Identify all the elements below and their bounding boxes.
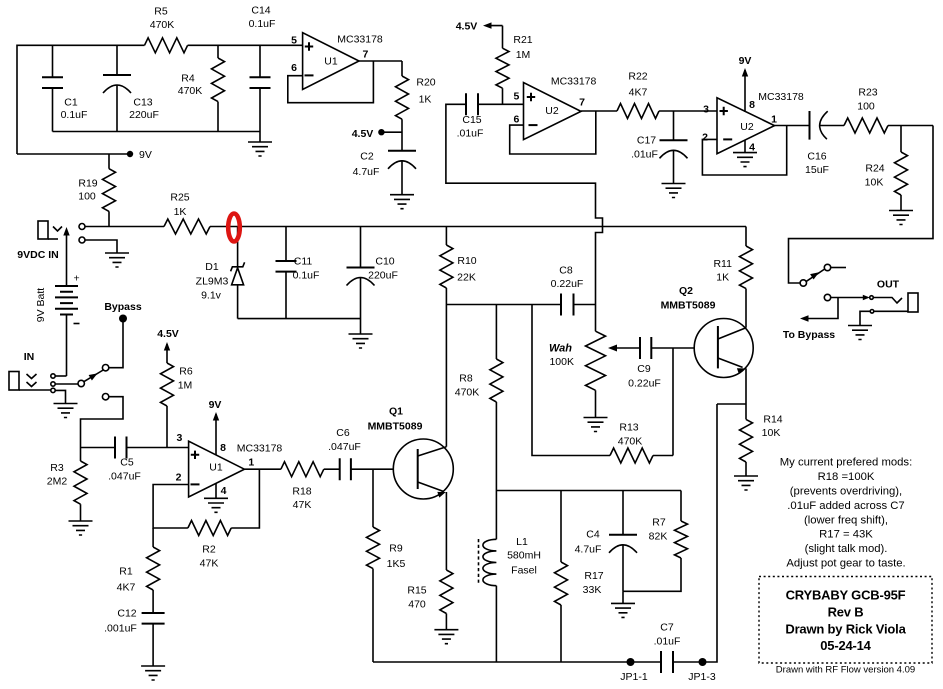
wire top rail left segment and left vertical to 9V node	[17, 45, 145, 154]
svg-text:8: 8	[749, 99, 755, 111]
svg-text:R17 = 43K: R17 = 43K	[819, 529, 873, 541]
svg-text:1K: 1K	[419, 94, 432, 106]
svg-text:100K: 100K	[549, 356, 574, 368]
jack IN body	[9, 372, 19, 391]
resistor R9	[367, 527, 380, 569]
svg-text:(slight talk mod).: (slight talk mod).	[805, 543, 888, 555]
svg-text:C2: C2	[360, 151, 374, 163]
ground under R15	[434, 630, 458, 644]
wire lower throw to R3/C5 input node	[81, 397, 124, 448]
svg-text:1K: 1K	[716, 272, 729, 284]
wire C5 to U1 pin3	[127, 447, 189, 449]
resistor R11	[745, 245, 747, 247]
svg-text:C1: C1	[64, 97, 78, 109]
svg-text:C4: C4	[586, 529, 600, 541]
resistor R20	[396, 76, 409, 119]
svg-text:C16: C16	[807, 151, 826, 163]
svg-text:C7: C7	[660, 622, 674, 634]
svg-text:5: 5	[513, 91, 519, 103]
node IN sleeve contact	[51, 388, 55, 392]
ground under C10	[349, 334, 373, 348]
svg-text:R3: R3	[50, 462, 64, 474]
wire tip contact to jack spring	[873, 298, 902, 304]
svg-text:R18 =100K: R18 =100K	[818, 471, 875, 483]
svg-text:470K: 470K	[150, 19, 175, 31]
svg-text:1: 1	[248, 457, 254, 469]
resistor R6	[161, 363, 174, 406]
svg-text:C13: C13	[133, 97, 152, 109]
svg-text:.01uF: .01uF	[631, 149, 658, 161]
resistor R2	[188, 521, 231, 536]
resistor R10	[445, 227, 447, 246]
ground under IN jack	[54, 404, 78, 418]
svg-text:C17: C17	[637, 135, 656, 147]
svg-text:0.22uF: 0.22uF	[628, 378, 661, 390]
wire IN ring to switch pivot	[55, 383, 78, 385]
svg-text:R19: R19	[78, 178, 97, 190]
svg-text:R14: R14	[763, 414, 782, 426]
ground under R3	[69, 521, 93, 535]
capacitor C16	[809, 111, 811, 140]
svg-text:05-24-14: 05-24-14	[820, 638, 871, 653]
svg-text:U2: U2	[545, 105, 559, 117]
svg-text:5: 5	[291, 35, 297, 47]
capacitor C1	[52, 45, 54, 131]
svg-text:2: 2	[176, 472, 182, 484]
svg-text:6: 6	[513, 114, 519, 126]
svg-text:C12: C12	[117, 608, 136, 620]
svg-text:R4: R4	[181, 73, 195, 85]
ground under C17	[662, 184, 686, 198]
wire C15 left loop down to Wah net	[446, 104, 603, 331]
svg-text:33K: 33K	[583, 584, 602, 596]
svg-text:U2: U2	[740, 121, 754, 133]
switch bypass lower throw	[102, 394, 108, 400]
capacitor C4	[622, 491, 624, 535]
capacitor C11	[285, 227, 287, 319]
wire U1b pin 4 to ground	[215, 483, 217, 498]
ground under OUT jack	[848, 326, 872, 340]
svg-text:(prevents overdriving),: (prevents overdriving),	[790, 486, 902, 498]
svg-text:MMBT5089: MMBT5089	[661, 300, 716, 312]
inductor L1 580mH Fasel	[495, 491, 497, 540]
svg-text:MC33178: MC33178	[337, 34, 383, 46]
svg-text:C11: C11	[294, 256, 313, 268]
node Bypass	[119, 315, 127, 323]
svg-text:580mH: 580mH	[507, 550, 541, 562]
wire D1 bottom rail to C10 ground stem	[238, 318, 361, 320]
ground under C4/R7	[611, 603, 635, 617]
svg-text:1: 1	[771, 114, 777, 126]
wire switch common to OUT jack tip	[824, 294, 830, 300]
resistor R4	[217, 45, 219, 131]
wire main rail R25 to R11 corner	[210, 227, 746, 247]
svg-text:4: 4	[221, 485, 227, 497]
ground under R14	[734, 476, 758, 490]
resistor R3	[80, 448, 82, 462]
svg-text:100: 100	[78, 191, 96, 203]
svg-text:8: 8	[220, 442, 226, 454]
svg-text:R18: R18	[292, 486, 311, 498]
wire jack sleeve line	[874, 310, 908, 312]
svg-text:100: 100	[857, 101, 875, 113]
svg-text:0.1uF: 0.1uF	[293, 270, 320, 282]
wire R18 to C6	[324, 468, 340, 470]
svg-text:JP1-1: JP1-1	[620, 671, 648, 683]
svg-text:Adjust pot gear to taste.: Adjust pot gear to taste.	[786, 558, 905, 570]
svg-text:.01uF added across C7: .01uF added across C7	[787, 500, 904, 512]
op-amp U1 (top section)	[303, 33, 359, 90]
node OUT jack tip contact	[870, 296, 874, 300]
wire R2 to output loop	[231, 469, 259, 528]
resistor R19	[108, 154, 110, 227]
title block CRYBABY GCB-95F	[759, 577, 932, 664]
svg-text:Drawn with RF Flow version 4.0: Drawn with RF Flow version 4.09	[776, 665, 915, 676]
svg-text:C15: C15	[462, 114, 481, 126]
svg-text:R10: R10	[457, 255, 476, 267]
svg-text:(lower freq shift),: (lower freq shift),	[804, 515, 888, 527]
capacitor C8	[561, 294, 574, 316]
wire R13 branch from node rail	[532, 305, 610, 456]
svg-text:9V Batt: 9V Batt	[35, 288, 47, 323]
svg-text:MMBT5089: MMBT5089	[368, 420, 423, 432]
svg-text:+: +	[74, 273, 80, 285]
wire C9 to Q2 base	[651, 347, 718, 349]
node 9VDC tip contact	[79, 224, 85, 230]
wire bottom rail	[373, 661, 661, 663]
zener diode D1 ZL9M3	[237, 227, 239, 267]
svg-text:0.22uF: 0.22uF	[551, 278, 584, 290]
wire ring contact to ground	[85, 240, 117, 253]
jack 9VDC IN body	[38, 221, 48, 239]
svg-text:R23: R23	[858, 87, 877, 99]
svg-text:R5: R5	[154, 6, 168, 18]
ground under 9VDC jack	[105, 253, 129, 267]
svg-text:C6: C6	[336, 427, 350, 439]
capacitor C17	[660, 139, 688, 141]
svg-text:R22: R22	[628, 71, 647, 83]
resistor R21	[496, 48, 509, 88]
svg-text:CRYBABY GCB-95F: CRYBABY GCB-95F	[786, 588, 906, 603]
svg-text:R25: R25	[170, 192, 189, 204]
svg-text:22K: 22K	[457, 272, 476, 284]
transistor Q1 MMBT5089	[393, 439, 453, 499]
svg-text:C9: C9	[637, 363, 651, 375]
svg-text:47K: 47K	[200, 558, 219, 570]
capacitor C2	[388, 150, 416, 152]
svg-text:L1: L1	[516, 536, 528, 548]
wire from R23 down to output switch	[789, 126, 934, 284]
svg-text:4.7uF: 4.7uF	[575, 544, 602, 556]
wire tank top rail	[496, 490, 681, 492]
switch output bypass	[800, 280, 806, 286]
wire U2b output to C16	[775, 125, 810, 127]
svg-text:ZL9M3: ZL9M3	[196, 276, 229, 288]
svg-text:3: 3	[176, 432, 182, 444]
wire U1 pin6 feedback loop	[288, 61, 374, 103]
wire R22 to U2b pin3	[659, 111, 717, 140]
svg-text:OUT: OUT	[877, 279, 900, 291]
svg-text:4.7uF: 4.7uF	[353, 166, 380, 178]
svg-text:470: 470	[408, 599, 426, 611]
svg-text:470K: 470K	[618, 436, 643, 448]
svg-text:MC33178: MC33178	[237, 442, 283, 454]
svg-text:.047uF: .047uF	[328, 441, 361, 453]
svg-text:R6: R6	[179, 366, 193, 378]
svg-text:R8: R8	[459, 373, 473, 385]
wire C8 right plate to Wah column	[574, 304, 596, 306]
svg-text:4K7: 4K7	[629, 87, 648, 99]
capacitor C6	[340, 458, 351, 480]
capacitor C12	[142, 613, 165, 624]
wire C7 to JP1-3	[673, 661, 705, 663]
svg-text:U1: U1	[324, 56, 338, 68]
resistor R13	[610, 448, 653, 463]
svg-text:4.5V: 4.5V	[456, 21, 478, 33]
svg-text:Fasel: Fasel	[511, 565, 537, 577]
svg-text:Wah: Wah	[549, 343, 572, 355]
svg-text:0.1uF: 0.1uF	[249, 18, 276, 30]
svg-text:9V: 9V	[139, 149, 152, 161]
svg-text:220uF: 220uF	[368, 270, 398, 282]
svg-text:9.1v: 9.1v	[201, 290, 222, 302]
wire up throw to Bypass node	[109, 322, 123, 368]
resistor R15	[440, 570, 453, 614]
svg-text:R1: R1	[119, 566, 133, 578]
svg-text:R2: R2	[202, 544, 216, 556]
svg-text:R9: R9	[389, 543, 403, 555]
svg-text:R7: R7	[652, 517, 666, 529]
svg-text:To Bypass: To Bypass	[783, 329, 835, 341]
svg-text:C10: C10	[375, 256, 394, 268]
ground under C12	[141, 666, 165, 680]
svg-text:7: 7	[362, 49, 368, 61]
wire R23 to corner and R24 tap	[888, 126, 933, 153]
svg-text:.01uF: .01uF	[457, 128, 484, 140]
wire Q1 emitter down to R15	[445, 492, 447, 570]
ground under U1b pin 4	[204, 498, 228, 512]
capacitor C7	[661, 651, 673, 673]
ground under R24	[889, 211, 913, 225]
capacitor C5	[115, 437, 127, 459]
svg-text:4.5V: 4.5V	[352, 128, 374, 140]
capacitor C10	[360, 227, 362, 335]
node JP1-3	[699, 658, 707, 666]
svg-text:R24: R24	[865, 163, 884, 175]
wire node rail R10 to C8	[446, 304, 561, 306]
ground under C14	[248, 142, 272, 156]
svg-text:R15: R15	[407, 585, 426, 597]
wire IN sleeve line and ground	[19, 390, 66, 404]
ground under Wah pot	[584, 418, 608, 432]
svg-text:R11: R11	[713, 258, 732, 270]
svg-text:2M2: 2M2	[47, 476, 68, 488]
wire top rail R5 to U1 pin5	[188, 44, 303, 46]
svg-text:.01uF: .01uF	[654, 636, 681, 648]
svg-text:9V: 9V	[209, 399, 222, 411]
svg-text:1M: 1M	[178, 380, 193, 392]
jack OUT body	[908, 293, 918, 312]
wire C15 right plate to U2 pin5	[478, 103, 524, 105]
wire IN tip to battery negative	[55, 375, 66, 377]
wire U1b pin2 to R2 loop	[153, 485, 189, 529]
svg-text:1M: 1M	[516, 49, 531, 61]
annotation red oval on main rail	[228, 214, 240, 242]
jack 9VDC center pin with arrow	[63, 227, 69, 236]
svg-text:9VDC IN: 9VDC IN	[17, 249, 58, 261]
resistor R7	[675, 521, 688, 558]
op-amp U2 (output buffer)	[717, 98, 775, 154]
svg-text:C8: C8	[559, 265, 573, 277]
node IN ring contact	[51, 382, 55, 386]
resistor R22	[617, 104, 659, 119]
capacitor C13	[116, 45, 118, 131]
svg-text:IN: IN	[24, 351, 35, 363]
svg-text:220uF: 220uF	[129, 109, 159, 121]
svg-text:10K: 10K	[762, 427, 781, 439]
svg-text:10K: 10K	[865, 177, 884, 189]
svg-text:Q1: Q1	[389, 406, 403, 418]
wire main rail jack to R25	[85, 226, 164, 228]
switch bypass pivot	[78, 380, 84, 386]
svg-text:3: 3	[703, 104, 709, 116]
switch bypass up throw	[102, 365, 108, 371]
wire U2 output to R22	[581, 110, 617, 112]
svg-text:D1: D1	[205, 261, 219, 273]
svg-text:C14: C14	[251, 5, 270, 17]
wire bottom rail of filter block	[53, 132, 261, 143]
svg-text:1K5: 1K5	[387, 558, 406, 570]
transistor Q2 MMBT5089	[694, 319, 753, 378]
resistor R18	[281, 462, 324, 477]
capacitor C15	[466, 93, 478, 115]
resistor R25	[164, 219, 210, 234]
resistor R17	[560, 491, 562, 563]
svg-text:6: 6	[291, 62, 297, 74]
ground under C2	[390, 195, 414, 209]
wire U1b output to R18	[244, 468, 281, 470]
svg-text:Drawn by Rick Viola: Drawn by Rick Viola	[785, 622, 906, 637]
resistor R14	[740, 419, 753, 462]
op-amp U2 (middle section)	[524, 83, 582, 140]
capacitor C14	[259, 45, 261, 131]
wire R9 tap from Q1 base wire	[372, 469, 374, 527]
svg-text:470K: 470K	[455, 387, 480, 399]
battery 9V Batt	[55, 286, 78, 315]
wire To Bypass with arrow	[807, 298, 838, 319]
op-amp U1 (input stage)	[189, 441, 245, 497]
node IN tip contact	[51, 374, 55, 378]
svg-text:R21: R21	[513, 34, 532, 46]
node JP1-1	[627, 658, 635, 666]
wire R3 node to C5	[81, 447, 116, 449]
wire R13 to C9 node	[653, 348, 673, 456]
svg-text:15uF: 15uF	[805, 164, 829, 176]
wire long return to JP1-3	[705, 404, 717, 662]
svg-text:9V: 9V	[739, 55, 752, 67]
svg-text:MC33178: MC33178	[551, 76, 597, 88]
svg-text:R20: R20	[416, 77, 435, 89]
svg-text:1K: 1K	[174, 206, 187, 218]
svg-text:.001uF: .001uF	[104, 623, 137, 635]
node 9V supply	[17, 153, 130, 155]
jack IN tip spring	[27, 374, 37, 379]
svg-text:4.5V: 4.5V	[157, 328, 179, 340]
wire Q1 collector up to R10 node	[445, 305, 447, 447]
resistor R5	[145, 38, 188, 53]
wire C6 to Q1 base	[351, 468, 418, 470]
svg-text:R13: R13	[619, 422, 638, 434]
wire Q2 emitter to R14 and branch	[717, 368, 746, 419]
svg-text:470K: 470K	[178, 85, 203, 97]
svg-text:Rev B: Rev B	[828, 605, 864, 620]
potentiometer Wah 100K	[586, 331, 606, 390]
resistor R24	[895, 152, 908, 195]
svg-text:Q2: Q2	[679, 285, 693, 297]
svg-text:47K: 47K	[293, 499, 312, 511]
svg-text:.047uF: .047uF	[108, 471, 141, 483]
svg-text:C5: C5	[120, 457, 134, 469]
wire sleeve to ground	[860, 311, 870, 325]
svg-text:0.1uF: 0.1uF	[61, 109, 88, 121]
resistor R1	[152, 528, 154, 547]
svg-text:MC33178: MC33178	[758, 91, 804, 103]
svg-text:R17: R17	[584, 570, 603, 582]
svg-text:4: 4	[749, 142, 755, 154]
svg-text:4K7: 4K7	[117, 582, 136, 594]
switch bypass blade	[84, 370, 103, 382]
ground under U2 pin 4	[733, 153, 757, 167]
wire U1 output to R20	[359, 61, 402, 76]
capacitor C9	[640, 337, 651, 359]
svg-text:82K: 82K	[649, 531, 668, 543]
wire U2b pin2 feedback loop	[702, 126, 786, 175]
node 9VDC ring contact	[79, 237, 85, 243]
svg-text:7: 7	[579, 97, 585, 109]
svg-text:My current prefered mods:: My current prefered mods:	[780, 457, 912, 469]
resistor R23	[844, 118, 888, 133]
jack IN ring spring	[27, 382, 37, 387]
wire U2 pin 4 to ground	[744, 140, 746, 153]
svg-text:JP1-3: JP1-3	[688, 671, 716, 683]
svg-text:U1: U1	[209, 462, 223, 474]
svg-text:Bypass: Bypass	[104, 301, 142, 313]
wire U2 pin6 feedback loop	[510, 111, 596, 154]
jack 9VDC tip spring	[53, 227, 62, 232]
resistor R8	[495, 305, 497, 360]
node OUT jack sleeve contact	[870, 310, 874, 314]
